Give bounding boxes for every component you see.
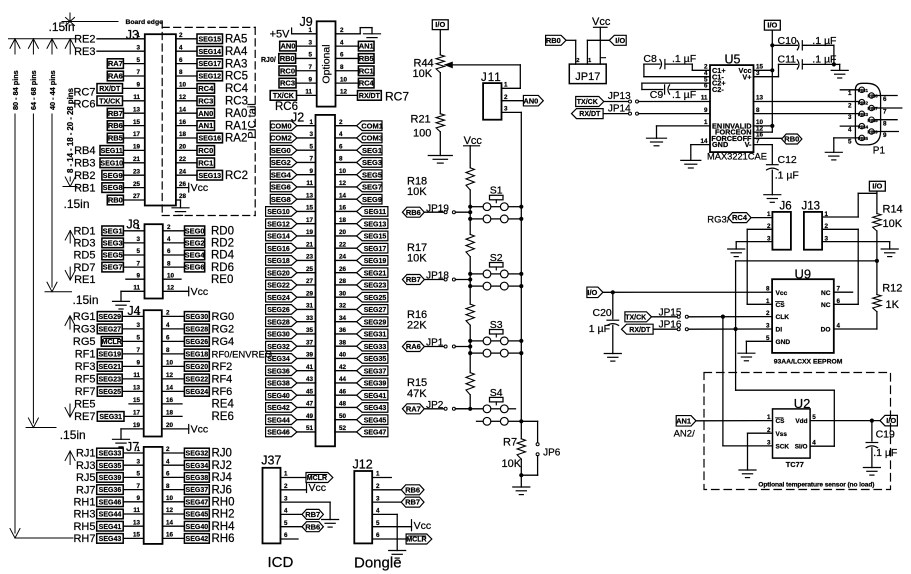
svg-text:20: 20	[339, 229, 347, 236]
signal box RA6	[107, 71, 123, 81]
svg-text:2: 2	[167, 224, 171, 231]
J3 ground pin28	[172, 200, 189, 215]
svg-text:AN0: AN0	[198, 109, 213, 118]
net flag RA7 (JP2)	[402, 404, 424, 414]
wire J3 pin20	[176, 149, 197, 151]
jumper JP14	[603, 103, 710, 115]
wire SEG27	[335, 308, 357, 310]
svg-text:SEG47: SEG47	[364, 430, 387, 437]
net flag SEG13 (J2 pin 18)	[357, 219, 388, 229]
label RH4	[212, 521, 236, 533]
wire SEG3	[335, 161, 357, 163]
P1 pin4 stub	[840, 126, 859, 133]
svg-text:TX/CK: TX/CK	[577, 99, 598, 106]
svg-text:RD5: RD5	[73, 250, 95, 262]
J9 pin numbers	[305, 27, 347, 96]
svg-text:RD2: RD2	[211, 238, 234, 250]
svg-text:SEG40: SEG40	[186, 524, 209, 531]
svg-text:32: 32	[339, 303, 347, 310]
wire SEG12	[297, 223, 316, 225]
net flag SEG23 (J2 pin 28)	[357, 280, 388, 290]
label RG0	[212, 311, 235, 323]
svg-text:RH2: RH2	[212, 509, 235, 521]
svg-text:24: 24	[339, 254, 347, 261]
label RH7	[73, 533, 95, 545]
label RH0	[212, 497, 235, 509]
svg-text:JP13: JP13	[608, 91, 631, 102]
svg-text:10: 10	[167, 272, 175, 279]
svg-text:15: 15	[133, 119, 141, 126]
svg-text:RH7: RH7	[73, 533, 95, 545]
label RD3	[73, 238, 95, 250]
signal box SEG34	[184, 460, 209, 470]
J12 pin numbers	[376, 471, 380, 540]
signal box SEG43	[97, 534, 124, 544]
svg-text:RB4: RB4	[74, 145, 95, 157]
svg-text:4: 4	[376, 508, 380, 515]
wire to J9 pin 10	[336, 82, 359, 84]
signal box SEG44	[97, 509, 124, 519]
wires S1 to rails	[468, 205, 523, 221]
wire SEG11	[335, 210, 357, 212]
net flag SEG31 (J2 pin 36)	[357, 329, 388, 339]
svg-text:15: 15	[306, 205, 314, 212]
Vcc supply (JP17)	[592, 16, 611, 64]
svg-text:8: 8	[179, 69, 183, 76]
resistor R21	[411, 114, 445, 140]
wire SEG32	[297, 345, 316, 347]
svg-text:2: 2	[179, 32, 183, 39]
net flag SEG10 (J2 pin 15)	[266, 207, 297, 217]
wire SEG20	[297, 272, 316, 274]
potentiometer R44	[413, 55, 445, 80]
signal box RB0 (J9 pin 5)	[279, 54, 296, 64]
svg-text:1: 1	[308, 27, 312, 34]
C10/C11 ground	[831, 64, 848, 78]
signal box SEG15 (J3 pin 2)	[197, 34, 223, 44]
rail segment	[469, 353, 471, 373]
svg-text:SEG1: SEG1	[103, 226, 123, 235]
svg-text:RE0: RE0	[211, 274, 233, 286]
wire SEG41 to J7	[123, 525, 144, 527]
svg-text:SEG11: SEG11	[101, 148, 123, 155]
svg-text:4: 4	[837, 323, 841, 330]
label RF6	[212, 386, 233, 398]
svg-text:V+: V+	[742, 72, 751, 81]
wire SEG10	[297, 210, 316, 212]
wire R14 to R12	[875, 231, 879, 295]
svg-text:13: 13	[133, 385, 141, 392]
svg-text:SEG16: SEG16	[267, 246, 290, 253]
connector J12	[353, 457, 373, 543]
svg-text:SEG25: SEG25	[364, 295, 387, 302]
label RD5	[73, 250, 95, 262]
svg-text:Vcc: Vcc	[776, 290, 788, 297]
dimension label .15in (J3-J8 gap)	[64, 197, 90, 211]
resistor R7	[502, 421, 526, 477]
svg-text:.15in: .15in	[64, 197, 90, 211]
label RC7 (J9)	[385, 90, 409, 104]
svg-text:SEG28: SEG28	[186, 327, 209, 334]
U9 pin numbers	[766, 286, 841, 342]
svg-text:RB5: RB5	[108, 134, 123, 143]
svg-text:RH5: RH5	[73, 521, 95, 533]
label RE0	[211, 274, 233, 286]
signal box MCLR	[101, 337, 122, 347]
signal box AN1 (J3 pin 16)	[197, 121, 215, 131]
svg-text:7: 7	[136, 347, 140, 354]
svg-text:TC77: TC77	[786, 460, 804, 469]
J4 pin16 stub	[162, 403, 182, 405]
signal box SEG16 (J3 pin 18)	[197, 133, 223, 143]
svg-text:SEG9: SEG9	[103, 171, 123, 180]
svg-text:3: 3	[767, 440, 771, 447]
label RB2	[74, 170, 95, 182]
wire SEG27 to J4	[122, 328, 144, 330]
svg-text:2: 2	[166, 446, 170, 453]
svg-text:8: 8	[756, 107, 760, 114]
signal box RC0 (J3 pin 20)	[197, 146, 215, 156]
net flag MCLR (J12 pin6)	[406, 534, 432, 544]
wire to J9 pin 5	[296, 57, 317, 59]
wire SEG21 to J4	[122, 365, 144, 367]
svg-text:J13: J13	[802, 201, 821, 213]
svg-text:3: 3	[376, 495, 380, 502]
wire SEG29	[335, 321, 357, 323]
wire J3 pin8	[176, 75, 197, 77]
signal box SEG21	[97, 362, 122, 372]
signal box RC3 (J3 pin 12)	[197, 96, 215, 106]
IC U2 TC77	[773, 396, 811, 469]
svg-text:2: 2	[576, 58, 579, 64]
svg-text:RX/DT: RX/DT	[579, 111, 601, 118]
svg-text:RH3: RH3	[73, 509, 95, 521]
svg-text:SEG41: SEG41	[99, 524, 122, 531]
svg-text:4: 4	[167, 236, 171, 243]
wire SEG46	[297, 431, 316, 433]
svg-text:RF5: RF5	[75, 374, 96, 386]
wire J7 to SEG47	[163, 501, 185, 503]
svg-text:C11: C11	[778, 54, 797, 66]
signal box AN1 (J9 pin 4)	[358, 41, 374, 51]
J37 pin numbers	[284, 471, 288, 540]
signal box SEG7	[102, 262, 124, 272]
wire SEG23 to J4	[122, 378, 144, 380]
svg-text:RJ4: RJ4	[212, 472, 233, 484]
wire RX/DT to J3	[123, 87, 145, 89]
C12 ground	[764, 195, 781, 203]
svg-text:20: 20	[166, 422, 174, 429]
label ICD	[268, 554, 294, 571]
pushbutton switch S1	[483, 185, 508, 223]
resistor R14	[873, 203, 903, 231]
label RA5	[225, 34, 247, 46]
svg-text:SEG40: SEG40	[267, 393, 290, 400]
net flag SEG12 (J2 pin 17)	[266, 219, 297, 229]
svg-text:21: 21	[306, 241, 314, 248]
svg-text:SEG28: SEG28	[267, 319, 290, 326]
signal box SEG25	[97, 387, 122, 397]
svg-text:17: 17	[133, 131, 141, 138]
svg-text:5: 5	[136, 335, 140, 342]
svg-text:RB6: RB6	[406, 208, 421, 217]
svg-text:SEG6: SEG6	[185, 263, 205, 272]
svg-text:SEG6: SEG6	[271, 183, 291, 192]
svg-text:1: 1	[767, 211, 771, 218]
svg-text:RD6: RD6	[211, 262, 234, 274]
wire U5 pin13 to P1 pin2	[754, 101, 860, 103]
net flag SEG45 (J2 pin 50)	[357, 415, 388, 425]
svg-text:SEG35: SEG35	[364, 356, 387, 363]
label PIC tail	[246, 103, 258, 138]
svg-text:14: 14	[700, 138, 708, 145]
label RA3	[225, 58, 247, 70]
svg-text:28: 28	[179, 193, 187, 200]
svg-text:10: 10	[340, 76, 348, 83]
svg-text:SEG3: SEG3	[362, 158, 382, 167]
svg-text:SEG15: SEG15	[198, 36, 221, 43]
svg-text:V-: V-	[745, 140, 752, 149]
wire RA7 to J3	[123, 63, 144, 65]
svg-text:RB3: RB3	[74, 158, 95, 170]
svg-text:PIN8: PIN8	[868, 118, 879, 123]
svg-text:3: 3	[848, 114, 852, 121]
svg-text:R12: R12	[882, 282, 902, 294]
J37 pin2 Vcc	[281, 482, 327, 494]
svg-text:29: 29	[306, 290, 314, 297]
wire SEG7	[335, 186, 357, 188]
svg-text:SEG38: SEG38	[267, 381, 290, 388]
net flag MCLR (J37 pin1)	[306, 473, 333, 483]
svg-text:11: 11	[306, 180, 313, 187]
label RC7	[73, 87, 95, 99]
P1 left pin circles	[858, 87, 869, 141]
svg-text:RH4: RH4	[212, 521, 236, 533]
svg-text:SEG33: SEG33	[99, 451, 122, 458]
PIC tail dashed boundary	[162, 21, 255, 216]
svg-text:33: 33	[306, 315, 314, 322]
svg-text:RC1: RC1	[359, 66, 374, 75]
svg-text:PIN2: PIN2	[858, 100, 869, 105]
pushbutton switch S3	[483, 319, 508, 357]
svg-text:SEG21: SEG21	[98, 364, 121, 371]
svg-text:4: 4	[340, 39, 344, 46]
U2 pin numbers	[767, 414, 816, 447]
svg-text:SEG46: SEG46	[267, 430, 290, 437]
label RD0	[211, 226, 234, 238]
svg-text:RB0: RB0	[280, 54, 295, 63]
wire SEG23	[335, 284, 357, 286]
svg-text:Vcc: Vcc	[414, 520, 432, 532]
svg-text:10K: 10K	[407, 253, 427, 265]
svg-text:Vcc: Vcc	[309, 482, 327, 494]
svg-text:40: 40	[339, 352, 347, 359]
svg-text:5: 5	[376, 520, 380, 527]
net flag SEG18 (J2 pin 23)	[266, 256, 297, 266]
signal box SEG20	[184, 362, 209, 372]
wire SEG44	[297, 419, 316, 421]
J8 pin9 stub	[126, 278, 145, 280]
label RJ0	[212, 448, 232, 460]
svg-text:3: 3	[308, 39, 312, 46]
net flag SEG15 (J2 pin 20)	[357, 231, 388, 241]
wire J4 to SEG28	[162, 328, 185, 330]
wire RB5 to J3	[123, 137, 144, 139]
svg-text:43: 43	[306, 376, 314, 383]
J4 pin numbers	[133, 310, 174, 430]
U5 EN ground	[647, 126, 711, 146]
svg-text:6: 6	[167, 248, 171, 255]
wire J8 to SEG2	[163, 242, 185, 244]
signal box SEG11	[100, 146, 123, 156]
signal box SEG41	[97, 521, 124, 531]
svg-text:SEG35: SEG35	[99, 463, 122, 470]
svg-text:RJ2: RJ2	[212, 460, 232, 472]
wire SEG15	[335, 235, 357, 237]
svg-text:RH1: RH1	[73, 497, 95, 509]
svg-text:4: 4	[848, 127, 852, 134]
U5 GND ground	[681, 145, 710, 168]
J4 pin20 Vcc	[162, 424, 208, 436]
svg-text:14: 14	[166, 385, 174, 392]
svg-text:6: 6	[166, 335, 170, 342]
svg-text:RC1: RC1	[198, 158, 213, 167]
svg-text:Board edge: Board edge	[126, 19, 164, 26]
svg-text:AN0: AN0	[280, 42, 295, 51]
signal box RC0 (J9 pin 7)	[279, 66, 296, 76]
net flag RA6 (JP1)	[402, 342, 424, 352]
svg-text:RB0: RB0	[784, 135, 799, 144]
signal box SEG30	[184, 312, 209, 322]
svg-text:.15in: .15in	[49, 20, 75, 34]
net flag SEG3 (J2 pin 8)	[357, 158, 382, 168]
label RG3	[73, 324, 96, 336]
svg-text:SEG10: SEG10	[267, 209, 290, 216]
net flag SEG36 (J2 pin 41)	[266, 366, 297, 376]
wire J4 to SEG18	[162, 353, 185, 355]
wire U5 pin8 to P1 pin3	[754, 113, 860, 115]
net flag SEG22 (J2 pin 27)	[266, 280, 297, 290]
net flag COM1 (J2 pin 2)	[357, 121, 383, 131]
net flag SEG46 (J2 pin 51)	[266, 427, 297, 437]
svg-text:13: 13	[133, 519, 141, 526]
svg-text:2: 2	[284, 483, 288, 490]
svg-text:11: 11	[701, 95, 708, 102]
label RJ7	[76, 484, 96, 496]
net flag RB7 (J12 pin3)	[401, 497, 424, 507]
svg-text:3: 3	[136, 44, 140, 51]
capacitor C20	[589, 292, 619, 353]
svg-text:RF2: RF2	[212, 361, 233, 373]
signal box SEG38	[184, 473, 209, 483]
label RJ0/	[261, 57, 276, 64]
svg-text:5: 5	[136, 248, 140, 255]
wire SEG22	[297, 284, 316, 286]
svg-text:22: 22	[179, 156, 187, 163]
svg-text:SEG11: SEG11	[364, 209, 386, 216]
connector J7	[126, 440, 163, 544]
label RH3	[73, 509, 95, 521]
wire R12 to U9 DO	[834, 312, 877, 329]
wire TX/CK to J3	[123, 100, 145, 102]
svg-text:MAX3221CAE: MAX3221CAE	[707, 152, 767, 162]
svg-text:4: 4	[812, 440, 816, 447]
svg-text:1: 1	[136, 224, 140, 231]
svg-text:RG0: RG0	[212, 311, 235, 323]
label RG2	[212, 324, 235, 336]
svg-text:5: 5	[136, 57, 140, 64]
svg-text:SCK: SCK	[776, 444, 790, 451]
svg-text:PIC tail: PIC tail	[246, 103, 258, 138]
wire U5 FORCEON to Vcc rail	[754, 70, 773, 132]
svg-text:6: 6	[339, 143, 343, 150]
wire COM0	[297, 125, 316, 127]
signal box SEG13 (J3 pin 24)	[197, 170, 223, 180]
svg-text:PIN9: PIN9	[868, 130, 879, 135]
net flag SEG38 (J2 pin 43)	[266, 378, 297, 388]
svg-text:RG3/: RG3/	[707, 214, 730, 225]
svg-text:C20: C20	[593, 307, 612, 319]
net flag SEG9 (J2 pin 14)	[357, 194, 382, 204]
svg-text:9: 9	[883, 132, 887, 139]
svg-text:SEG43: SEG43	[99, 536, 122, 543]
signal box SEG8	[102, 183, 124, 193]
P1 pin8 wire	[874, 120, 897, 128]
J37 pin6 stub	[281, 538, 299, 540]
wire SEG26	[297, 308, 316, 310]
net flag RB7 (JP18)	[402, 275, 424, 285]
signal box SEG29	[97, 312, 122, 322]
svg-text:RE2: RE2	[74, 34, 95, 46]
label RH1	[73, 497, 95, 509]
svg-text:19: 19	[306, 229, 314, 236]
net flag SEG8 (J2 pin 13)	[270, 194, 297, 204]
label RC4	[225, 83, 249, 95]
svg-text:RB2: RB2	[74, 170, 95, 182]
svg-text:16: 16	[179, 119, 187, 126]
svg-text:RC0: RC0	[280, 66, 295, 75]
svg-text:9: 9	[136, 82, 140, 89]
wire SEG3 to J8	[123, 242, 144, 244]
svg-text:21: 21	[133, 156, 141, 163]
label RJ5	[76, 472, 96, 484]
capacitor C10	[772, 35, 836, 64]
wire J7 to SEG38	[163, 476, 185, 478]
wire SEG28	[297, 321, 316, 323]
signal box SEG40	[184, 521, 209, 531]
U5 pin numbers	[700, 64, 763, 145]
rail segment	[469, 219, 471, 235]
svg-text:RB0: RB0	[546, 36, 561, 45]
svg-text:17: 17	[306, 217, 314, 224]
capacitor C9	[642, 83, 710, 101]
wire SEG45	[335, 419, 357, 421]
wire J3 pin24	[176, 174, 197, 176]
wire SEG34	[297, 357, 316, 359]
connector J3	[126, 28, 176, 205]
signal box SEG5	[102, 250, 124, 260]
wire to J9 pin 6	[336, 57, 359, 59]
svg-text:SEG4: SEG4	[271, 170, 292, 179]
svg-text:11: 11	[133, 285, 140, 292]
svg-text:3: 3	[136, 236, 140, 243]
wire SEG1	[335, 149, 357, 151]
svg-text:11: 11	[133, 507, 140, 514]
svg-text:I/O: I/O	[872, 182, 882, 191]
net flag SEG35 (J2 pin 40)	[357, 354, 388, 364]
wire SEG0	[297, 149, 316, 151]
label RA2	[225, 133, 247, 145]
